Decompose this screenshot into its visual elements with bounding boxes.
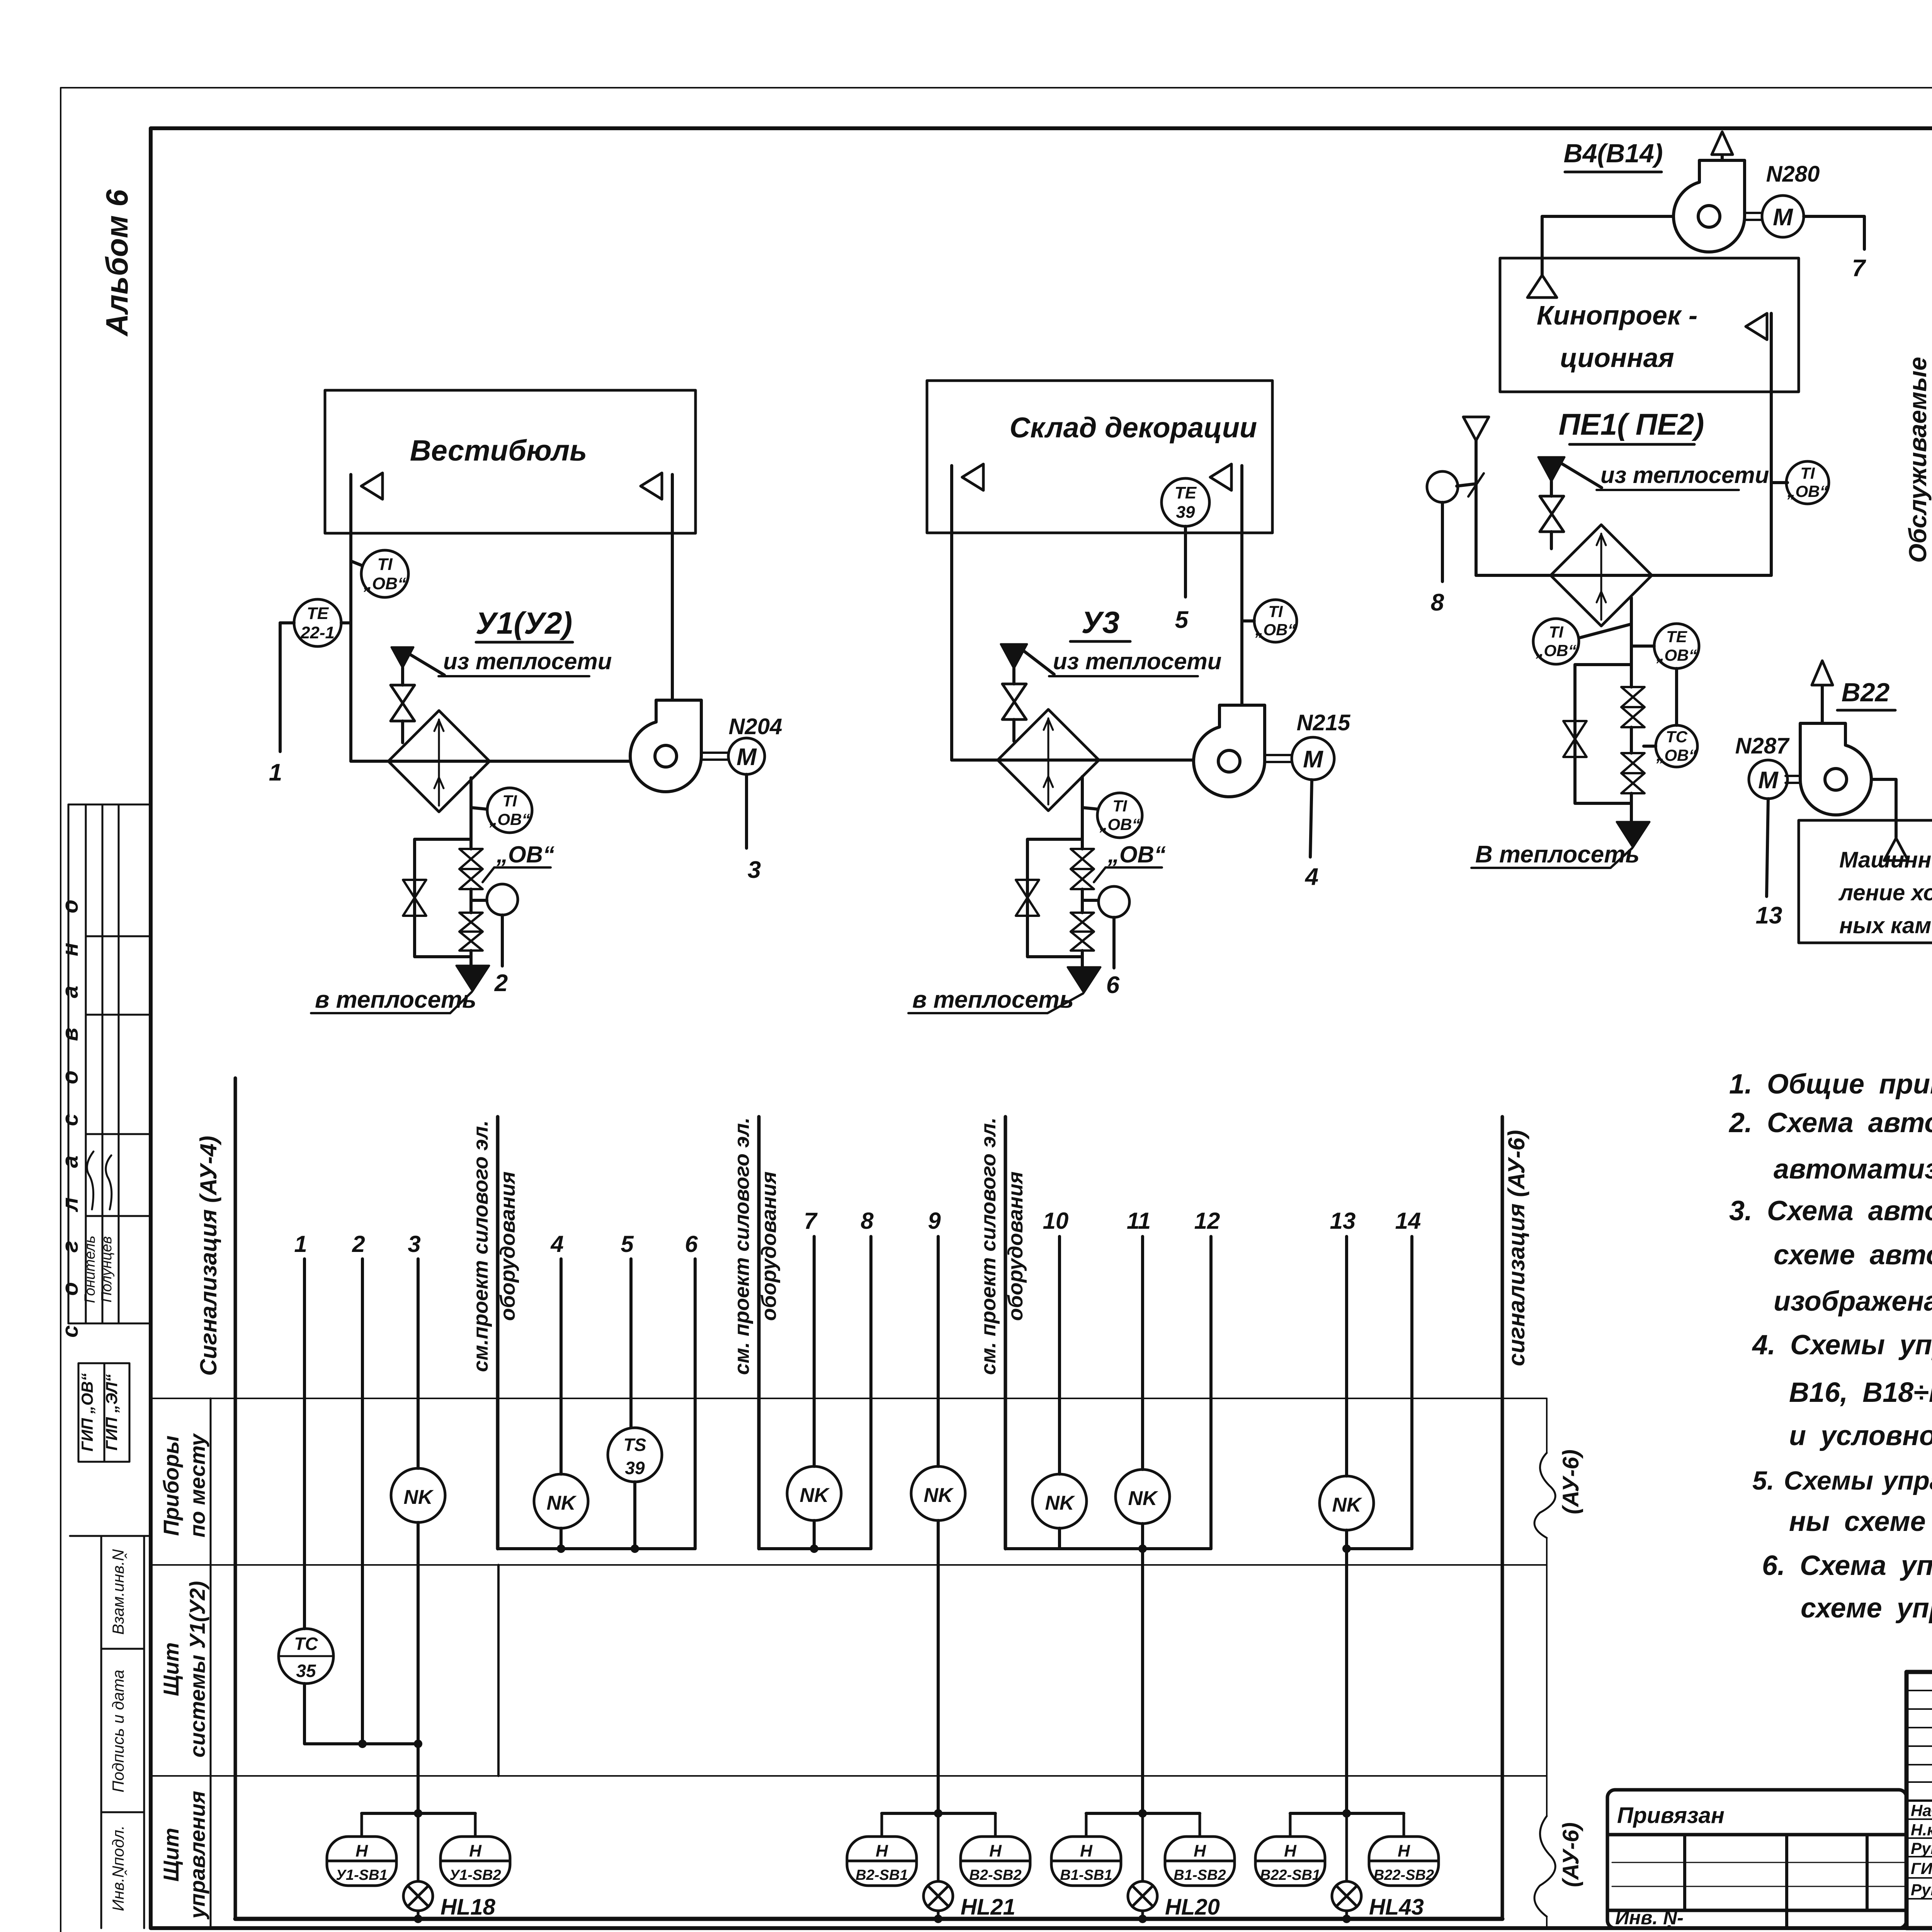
- svg-text:5: 5: [1175, 607, 1189, 633]
- svg-text:12: 12: [1194, 1208, 1220, 1234]
- svg-text:„ОВ“: „ОВ“: [489, 810, 530, 828]
- instrument TI OB right PE1: [1771, 481, 1787, 484]
- svg-text:TI: TI: [1268, 602, 1283, 621]
- panel U1 scope divider: [497, 1565, 500, 1776]
- svg-text:В22: В22: [1842, 678, 1890, 707]
- svg-text:N204: N204: [729, 714, 782, 739]
- svg-text:7: 7: [1852, 255, 1866, 282]
- exhaust duct right PE1: [1770, 313, 1773, 575]
- svg-text:У1(У2): У1(У2): [476, 606, 573, 640]
- svg-text:HL43: HL43: [1369, 1895, 1424, 1920]
- button B1-SB1: [1051, 1837, 1121, 1886]
- svg-text:ных камер: ных камер: [1839, 913, 1932, 938]
- button B2-SB1: [847, 1837, 917, 1886]
- heat exchanger U1: [388, 711, 490, 812]
- svg-text:оборудования: оборудования: [1004, 1172, 1027, 1321]
- svg-text:„ОВ“: „ОВ“: [1255, 621, 1296, 639]
- label U3: [1082, 605, 1120, 639]
- svg-text:см. проект силового эл.: см. проект силового эл.: [977, 1117, 1000, 1375]
- svg-text:TI: TI: [502, 792, 517, 810]
- instrument TI OB right U3: [1242, 619, 1254, 622]
- svg-text:Взам.инв.Ṋ: Взам.инв.Ṋ: [109, 1549, 127, 1635]
- svg-text:оборудования: оборудования: [496, 1172, 519, 1321]
- svg-text:Н: Н: [469, 1842, 482, 1861]
- label PE1(PE2): [1559, 407, 1704, 441]
- svg-text:автоматизации системы У1 и: автоматизации системы У1 и условна не из…: [1774, 1154, 1932, 1185]
- row captions: [159, 1433, 209, 1920]
- air marker PE1 right: [1746, 313, 1767, 340]
- wire to terminal 1: [280, 621, 294, 624]
- svg-text:NK: NK: [1128, 1487, 1158, 1510]
- svg-text:4. Схемы управления вытяжны: 4. Схемы управления вытяжными системами …: [1752, 1330, 1932, 1361]
- svg-text:„ОВ“: „ОВ“: [363, 574, 406, 593]
- svg-text:2: 2: [352, 1231, 365, 1257]
- fan B22 mirrored: [1800, 723, 1871, 815]
- instrument TC OB PE1: [1656, 725, 1697, 767]
- svg-text:ление холодиль-: ление холодиль-: [1838, 880, 1932, 905]
- bus 1: [498, 1547, 695, 1550]
- valve on heat inlet U3: [1002, 684, 1026, 719]
- suction duct B22: [1871, 779, 1896, 837]
- svg-text:M: M: [1773, 204, 1793, 231]
- svg-text:HL21: HL21: [961, 1895, 1015, 1920]
- svg-text:по месту: по месту: [185, 1433, 209, 1537]
- motor M N280: [1745, 212, 1762, 214]
- svg-text:Н: Н: [1398, 1842, 1410, 1861]
- button B22-SB2: [1369, 1837, 1439, 1886]
- svg-text:схеме управления системой: схеме управления системой В13 и условно …: [1801, 1593, 1932, 1624]
- wire to terminal 13: [1767, 799, 1768, 896]
- motor M N204: [701, 752, 728, 754]
- motor M N287: [1786, 775, 1800, 777]
- svg-text:в теплосеть: в теплосеть: [315, 986, 476, 1013]
- wire 10: [1058, 1236, 1061, 1474]
- label B4(B14): [1564, 139, 1663, 168]
- main air duct U1: [351, 760, 633, 763]
- svg-text:Кинопроек -: Кинопроек -: [1537, 300, 1697, 330]
- button bus B2: [882, 1812, 995, 1815]
- svg-text:6. Схема управления вытяжной: 6. Схема управления вытяжной системой В2…: [1762, 1550, 1932, 1581]
- svg-text:1: 1: [269, 759, 282, 786]
- supply duct right: [671, 474, 674, 708]
- svg-text:35: 35: [296, 1661, 316, 1681]
- svg-text:2: 2: [494, 970, 508, 997]
- air marker right: [641, 473, 662, 499]
- approval strip table: [68, 804, 149, 1462]
- wire 6: [694, 1259, 697, 1549]
- return piping U1: [469, 778, 473, 849]
- svg-text:4: 4: [550, 1231, 563, 1257]
- svg-text:Инв. Ṋ-: Инв. Ṋ-: [1615, 1907, 1684, 1929]
- svg-text:1: 1: [294, 1231, 307, 1257]
- svg-text:B2-SB2: B2-SB2: [969, 1867, 1021, 1883]
- wire 7: [813, 1236, 816, 1466]
- svg-text:Н: Н: [876, 1842, 888, 1861]
- svg-text:TI: TI: [1112, 797, 1128, 815]
- instrument TE 39: [1162, 478, 1209, 526]
- svg-text:„ОВ“: „ОВ“: [1536, 641, 1577, 660]
- svg-text:„ОВ“: „ОВ“: [1656, 746, 1697, 764]
- approval signatures: [87, 1151, 94, 1209]
- svg-text:Щит: Щит: [159, 1642, 183, 1696]
- svg-text:схеме автоматизации системы: схеме автоматизации системы ПЕ1 с В4 и у…: [1774, 1240, 1932, 1270]
- button bus B22: [1290, 1812, 1404, 1815]
- fan U3: [1194, 705, 1265, 797]
- svg-text:TC: TC: [294, 1634, 318, 1654]
- bus 4: [1347, 1547, 1412, 1550]
- button U1-SB1: [327, 1837, 396, 1886]
- svg-text:TS: TS: [624, 1435, 646, 1455]
- bypass U3: [1027, 839, 1082, 957]
- svg-text:„ОВ“: „ОВ“: [1107, 842, 1166, 867]
- lamp HL43: [1345, 1813, 1348, 1881]
- svg-text:Рук.сект: Рук.сект: [1911, 1839, 1932, 1857]
- instrument TI OB lower PE1: [1580, 624, 1631, 638]
- wire stubs to buttons B22: [1289, 1813, 1292, 1837]
- wire 1: [303, 1259, 306, 1629]
- svg-text:У1-SB2: У1-SB2: [449, 1867, 501, 1883]
- svg-text:4: 4: [1304, 864, 1318, 890]
- svg-text:в теплосеть: в теплосеть: [912, 986, 1074, 1013]
- wire 11: [1141, 1236, 1144, 1469]
- svg-text:N215: N215: [1297, 710, 1350, 735]
- lamp HL18: [417, 1813, 420, 1881]
- button bus B1: [1086, 1812, 1200, 1815]
- instrument TE 22-1: [294, 599, 341, 646]
- heat supply inlet: [391, 647, 413, 668]
- wire 13: [1345, 1236, 1348, 1476]
- svg-text:22-1: 22-1: [300, 623, 335, 642]
- svg-text:Щит: Щит: [159, 1828, 183, 1881]
- signature labels: [1911, 1801, 1932, 1899]
- left signature grid: [1906, 1690, 1932, 1691]
- svg-text:ГИП „ОВ“: ГИП „ОВ“: [78, 1373, 96, 1452]
- room label: [1010, 412, 1257, 444]
- svg-text:см. проект силового эл.: см. проект силового эл.: [730, 1117, 753, 1375]
- wire to terminal 4: [1310, 780, 1312, 857]
- return piping PE1: [1630, 598, 1633, 687]
- room label: [410, 434, 587, 467]
- svg-text:из теплосети: из теплосети: [443, 648, 612, 674]
- svg-text:Сигнализация (АУ-4): Сигнализация (АУ-4): [196, 1136, 221, 1376]
- svg-text:сигнализация (АУ-6): сигнализация (АУ-6): [1503, 1130, 1529, 1366]
- fresh air intake PE1: [1463, 417, 1489, 440]
- svg-text:Привязан: Привязан: [1617, 1803, 1725, 1828]
- fan U1: [630, 700, 701, 792]
- svg-text:TE: TE: [307, 604, 329, 623]
- svg-text:TI: TI: [1549, 623, 1564, 641]
- svg-text:„ОВ“: „ОВ“: [1656, 646, 1697, 664]
- wire 2: [361, 1259, 364, 1744]
- svg-text:NK: NK: [923, 1484, 954, 1507]
- OB tag U3: [1107, 842, 1166, 867]
- svg-text:Обслуживаемые: Обслуживаемые: [1904, 357, 1932, 563]
- svg-text:7: 7: [804, 1208, 818, 1234]
- bypass U1: [415, 839, 471, 957]
- lamp HL21: [937, 1813, 940, 1881]
- svg-text:Рук. гр.: Рук. гр.: [1911, 1881, 1932, 1899]
- air marker B4: [1527, 275, 1557, 298]
- instrument TE OB PE1: [1631, 645, 1654, 648]
- air duct PE1: [1476, 574, 1771, 577]
- svg-text:В16, В18÷В20 аналогичны схем: В16, В18÷В20 аналогичны схеме управления…: [1789, 1377, 1932, 1408]
- button B2-SB2: [961, 1837, 1030, 1886]
- svg-text:У1-SB1: У1-SB1: [336, 1867, 387, 1883]
- heat exchanger PE1: [1551, 525, 1652, 626]
- svg-text:ГИП: ГИП: [1911, 1859, 1932, 1878]
- label U1(U2): [476, 606, 573, 640]
- air marker left: [361, 473, 383, 499]
- inventory strip: [70, 1536, 148, 1928]
- svg-text:TE: TE: [1175, 483, 1197, 502]
- wire stubs to buttons B1: [1085, 1813, 1088, 1837]
- supply duct left U3: [950, 466, 953, 760]
- svg-text:2. Схема автоматизации сис: 2. Схема автоматизации системы У2 аналог…: [1728, 1107, 1932, 1138]
- button groups: [327, 1809, 1439, 1923]
- svg-text:У3: У3: [1082, 605, 1120, 639]
- svg-text:из теплосети: из теплосети: [1600, 462, 1769, 488]
- svg-text:„ОВ“: „ОВ“: [496, 842, 554, 867]
- signal line AU-6: [1501, 1117, 1504, 1919]
- svg-text:оборудования: оборудования: [757, 1172, 781, 1321]
- svg-text:TI: TI: [1800, 464, 1815, 482]
- svg-text:39: 39: [625, 1458, 645, 1478]
- svg-text:3: 3: [408, 1231, 420, 1257]
- room box Sklad: [927, 381, 1272, 533]
- svg-text:ПЕ1( ПЕ2): ПЕ1( ПЕ2): [1559, 407, 1704, 441]
- svg-text:M: M: [1303, 746, 1323, 773]
- svg-text:HL18: HL18: [440, 1895, 496, 1920]
- svg-text:Машинное отде-: Машинное отде-: [1839, 847, 1932, 872]
- heat exchanger U3: [998, 709, 1099, 811]
- to heat network U3: [1068, 967, 1100, 993]
- svg-text:10: 10: [1043, 1208, 1069, 1234]
- privyazan box: [1607, 1790, 1906, 1928]
- svg-text:6: 6: [1106, 972, 1120, 998]
- svg-text:N287: N287: [1735, 733, 1790, 759]
- agreed label: [58, 888, 121, 1451]
- svg-text:3: 3: [748, 857, 761, 883]
- svg-text:из теплосети: из теплосети: [1053, 648, 1221, 674]
- to heat network U1: [456, 966, 489, 991]
- pressure gauge U3: [1082, 899, 1098, 902]
- svg-text:TE: TE: [1666, 628, 1688, 646]
- svg-text:(АУ-6): (АУ-6): [1558, 1822, 1583, 1887]
- svg-text:9: 9: [928, 1208, 941, 1234]
- svg-text:Альбом 6: Альбом 6: [100, 189, 134, 337]
- supply duct left: [349, 474, 352, 761]
- room box Vestibule: [325, 390, 696, 533]
- svg-text:В4(В14): В4(В14): [1564, 139, 1663, 168]
- return piping U3: [1081, 777, 1084, 849]
- svg-text:изображена.: изображена.: [1774, 1286, 1932, 1317]
- valve on heat inlet: [391, 685, 415, 721]
- svg-text:NK: NK: [1045, 1492, 1075, 1514]
- signal line AU-4: [234, 1078, 237, 1919]
- exhaust arrow B4: [1721, 155, 1724, 160]
- wire 12: [1209, 1236, 1213, 1549]
- table rows: [152, 1398, 1547, 1399]
- svg-text:и условно не изображены.: и условно не изображены.: [1789, 1420, 1932, 1451]
- svg-text:B2-SB1: B2-SB1: [855, 1867, 908, 1883]
- lamp HL20: [1141, 1813, 1144, 1881]
- air marker B22 bottom: [1884, 838, 1908, 861]
- power project line 3: [1004, 1117, 1007, 1549]
- svg-text:N280: N280: [1766, 162, 1820, 187]
- wire 3: [417, 1259, 420, 1468]
- instrument TI OB upper: [351, 561, 362, 566]
- svg-text:14: 14: [1395, 1208, 1421, 1234]
- wire 5: [629, 1259, 633, 1428]
- bypass PE1: [1575, 665, 1631, 803]
- main air duct U3: [952, 759, 1196, 762]
- air marker left U3: [962, 464, 983, 490]
- wire to terminal 7: [1804, 216, 1864, 249]
- svg-text:TC: TC: [1666, 728, 1688, 746]
- svg-text:системы У1(У2): системы У1(У2): [185, 1581, 209, 1758]
- svg-text:„ОВ“: „ОВ“: [1787, 482, 1828, 500]
- svg-text:11: 11: [1127, 1208, 1151, 1234]
- bottom signal bus: [235, 1917, 1502, 1921]
- svg-text:5. Схемы управления вытяжным: 5. Схемы управления вытяжными системами …: [1752, 1466, 1932, 1495]
- instrument TI OB lower U1: [471, 808, 486, 809]
- svg-text:Н: Н: [1284, 1842, 1297, 1861]
- to heat network PE1: [1617, 822, 1650, 847]
- room box Kinoproekcionnaya: [1500, 258, 1799, 392]
- supply duct right U3: [1240, 466, 1243, 704]
- button U1-SB2: [440, 1837, 510, 1886]
- diagram right boundary with breaks: [1546, 1398, 1548, 1453]
- svg-text:NK: NK: [799, 1484, 830, 1507]
- motor M N215: [1265, 754, 1292, 756]
- svg-text:6: 6: [685, 1231, 698, 1257]
- fan B4: [1673, 160, 1745, 252]
- svg-text:NK: NK: [1332, 1494, 1362, 1516]
- svg-text:Н.контр.: Н.контр.: [1911, 1821, 1932, 1839]
- svg-text:B22-SB1: B22-SB1: [1260, 1867, 1320, 1883]
- svg-text:Инв.Ṋподл.: Инв.Ṋподл.: [109, 1825, 127, 1911]
- OB tag U1: [496, 842, 554, 867]
- svg-text:8: 8: [1431, 589, 1444, 616]
- svg-text:с о г л а с о в а н о: с о г л а с о в а н о: [58, 888, 83, 1338]
- wire 4: [560, 1259, 563, 1474]
- svg-text:Склад декорации: Склад декорации: [1010, 412, 1257, 444]
- relay TC35: [279, 1629, 333, 1684]
- album label: [100, 189, 134, 337]
- instrument TI OB lower U3: [1082, 808, 1098, 809]
- machine room box: [1799, 820, 1932, 943]
- svg-text:(АУ-6): (АУ-6): [1558, 1449, 1583, 1514]
- svg-text:3. Схема автоматизации сист: 3. Схема автоматизации системы ПЕ2 с В14…: [1729, 1196, 1932, 1226]
- air marker right U3: [1210, 464, 1231, 490]
- pressure gauge U1: [471, 899, 487, 902]
- svg-text:13: 13: [1756, 902, 1782, 929]
- svg-text:ны схеме управления систем: ны схеме управления системой В1 и условн…: [1789, 1506, 1932, 1537]
- main stamp outline: [1906, 1672, 1932, 1928]
- svg-text:Н: Н: [355, 1842, 368, 1861]
- bus 2: [759, 1547, 871, 1550]
- svg-text:HL20: HL20: [1165, 1895, 1220, 1920]
- svg-text:см.проект силового эл.: см.проект силового эл.: [469, 1120, 492, 1372]
- svg-text:ционная: ционная: [1560, 343, 1674, 373]
- svg-text:13: 13: [1330, 1208, 1356, 1234]
- button B1-SB2: [1165, 1837, 1235, 1886]
- heat supply inlet PE1: [1538, 457, 1565, 481]
- svg-text:M: M: [1758, 767, 1779, 794]
- exhaust arrow B22: [1821, 686, 1824, 771]
- svg-text:Полунцев: Полунцев: [99, 1236, 115, 1302]
- svg-text:Вестибюль: Вестибюль: [410, 434, 587, 467]
- wire 8: [869, 1236, 872, 1549]
- bus 3: [1005, 1547, 1211, 1550]
- lamp relay NK line3: [391, 1468, 445, 1522]
- heat supply inlet U3: [1001, 644, 1027, 668]
- button B22-SB1: [1255, 1837, 1325, 1886]
- button bus U1: [362, 1812, 475, 1815]
- svg-text:39: 39: [1176, 503, 1195, 522]
- svg-text:Нач.отд.: Нач.отд.: [1911, 1801, 1932, 1820]
- svg-text:Н: Н: [1194, 1842, 1206, 1861]
- wire to terminal 3: [745, 774, 748, 848]
- svg-text:Подпись и дата: Подпись и дата: [109, 1670, 127, 1793]
- svg-text:TI: TI: [377, 555, 393, 574]
- svg-text:B22-SB2: B22-SB2: [1374, 1867, 1434, 1883]
- wire stubs to buttons B2: [881, 1813, 883, 1837]
- svg-text:Н: Н: [989, 1842, 1002, 1861]
- svg-text:M: M: [736, 744, 757, 770]
- wire 14: [1410, 1236, 1413, 1549]
- svg-text:5: 5: [621, 1231, 634, 1257]
- svg-text:8: 8: [861, 1208, 874, 1234]
- svg-text:ГИП „ЭЛ“: ГИП „ЭЛ“: [102, 1374, 121, 1451]
- power project line 2: [757, 1117, 761, 1549]
- svg-text:Гонитель: Гонитель: [82, 1236, 98, 1303]
- wire stubs to buttons U1: [361, 1813, 363, 1837]
- duct from room to fan B4: [1542, 216, 1673, 276]
- svg-text:„ОВ“: „ОВ“: [1099, 815, 1140, 833]
- label B22: [1842, 678, 1890, 707]
- wire 9: [937, 1236, 940, 1466]
- svg-text:управления: управления: [185, 1791, 209, 1920]
- svg-text:Приборы: Приборы: [159, 1435, 183, 1536]
- svg-text:B1-SB2: B1-SB2: [1173, 1867, 1226, 1883]
- power project line 1: [496, 1117, 500, 1549]
- svg-text:NK: NK: [546, 1492, 577, 1514]
- svg-text:Н: Н: [1080, 1842, 1093, 1861]
- svg-text:NK: NK: [403, 1486, 434, 1509]
- svg-text:B1-SB1: B1-SB1: [1060, 1867, 1112, 1883]
- svg-text:1. Общие примечания см. л: 1. Общие примечания см. лист АУ-3.: [1729, 1069, 1932, 1100]
- valve on heat inlet PE1: [1540, 496, 1564, 532]
- inlet damper with gauge PE1: [1457, 484, 1476, 486]
- serviced rooms label B2: [1904, 357, 1932, 563]
